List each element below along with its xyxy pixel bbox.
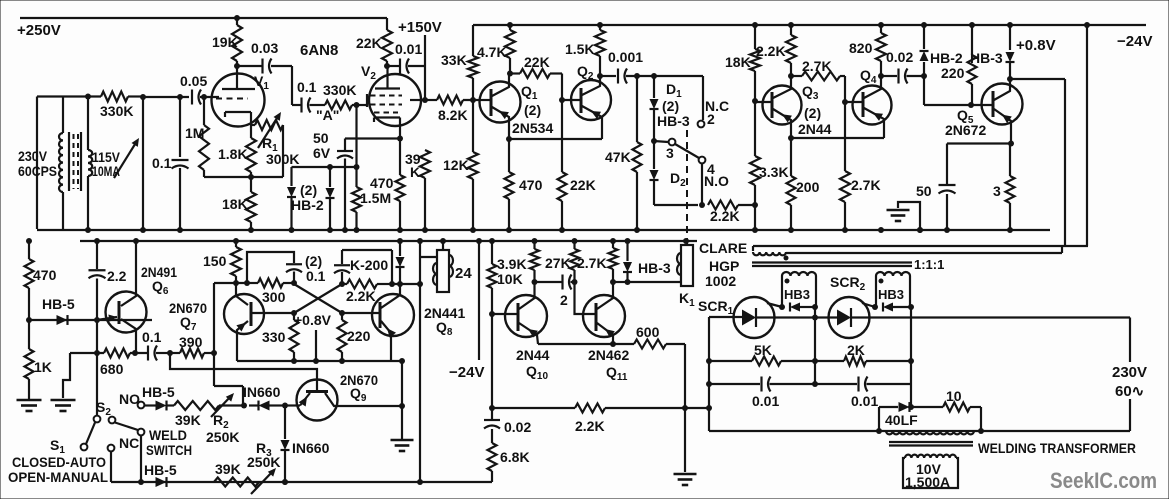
svg-text:1.5M: 1.5M (360, 190, 391, 206)
svg-text:10K: 10K (497, 271, 523, 287)
svg-text:2.7K: 2.7K (851, 177, 881, 193)
svg-text:−24V: −24V (1117, 33, 1152, 50)
svg-text:2.2K: 2.2K (710, 208, 740, 224)
svg-text:19K: 19K (212, 34, 238, 50)
svg-text:22K: 22K (524, 54, 550, 70)
svg-text:+0.8V: +0.8V (1016, 37, 1056, 54)
svg-text:8.2K: 8.2K (438, 107, 468, 123)
svg-text:6.8K: 6.8K (500, 449, 530, 465)
svg-text:470: 470 (33, 267, 57, 283)
svg-text:1002: 1002 (705, 273, 736, 289)
svg-text:K-200: K-200 (350, 257, 388, 273)
svg-text:47K: 47K (605, 149, 631, 165)
svg-text:50: 50 (313, 130, 329, 146)
svg-text:HB-5: HB-5 (144, 462, 177, 478)
svg-text:24: 24 (455, 265, 472, 282)
svg-text:HB-5: HB-5 (42, 296, 75, 312)
svg-text:250K: 250K (247, 454, 280, 470)
svg-text:330K: 330K (323, 82, 356, 98)
svg-text:0.02: 0.02 (504, 419, 531, 435)
svg-text:SWITCH: SWITCH (146, 442, 192, 458)
svg-text:IN660: IN660 (292, 440, 330, 456)
svg-text:1.5K: 1.5K (565, 41, 595, 57)
svg-text:2N534: 2N534 (512, 120, 553, 136)
svg-text:1.8K: 1.8K (218, 146, 248, 162)
svg-text:39K: 39K (215, 461, 241, 477)
svg-text:1M: 1M (185, 125, 204, 141)
svg-text:10: 10 (946, 388, 962, 404)
svg-text:0.001: 0.001 (608, 49, 643, 65)
svg-text:230V: 230V (1112, 364, 1147, 381)
svg-text:HB-3: HB-3 (657, 113, 690, 129)
svg-text:470: 470 (519, 177, 543, 193)
svg-text:(2): (2) (524, 102, 541, 118)
svg-text:2.7K: 2.7K (577, 255, 607, 271)
svg-text:2: 2 (560, 292, 568, 308)
svg-text:22K: 22K (356, 35, 382, 51)
svg-text:2N462: 2N462 (588, 347, 629, 363)
svg-text:60∿: 60∿ (1115, 383, 1144, 400)
svg-text:K: K (410, 164, 420, 180)
svg-text:10MA: 10MA (92, 163, 120, 179)
svg-text:5K: 5K (754, 342, 772, 358)
svg-text:HB-3: HB-3 (970, 50, 1003, 66)
svg-text:50: 50 (916, 183, 932, 199)
svg-text:18K: 18K (725, 54, 751, 70)
svg-text:680: 680 (100, 361, 124, 377)
svg-text:0.01: 0.01 (395, 41, 422, 57)
svg-text:300: 300 (262, 289, 286, 305)
svg-text:1,500A: 1,500A (905, 474, 950, 490)
svg-text:(2): (2) (662, 98, 679, 114)
svg-text:150: 150 (203, 253, 227, 269)
svg-text:SeekIC.com: SeekIC.com (1050, 468, 1157, 493)
svg-text:HB-3: HB-3 (638, 260, 671, 276)
svg-text:3.3K: 3.3K (759, 164, 789, 180)
svg-text:WELD: WELD (149, 427, 187, 443)
svg-text:60CPS: 60CPS (18, 163, 57, 179)
svg-text:27K: 27K (545, 255, 571, 271)
svg-text:390: 390 (179, 334, 203, 350)
svg-text:300K: 300K (266, 151, 299, 167)
svg-text:2.2K: 2.2K (346, 288, 376, 304)
svg-text:0.1: 0.1 (306, 268, 326, 284)
svg-text:CLOSED-AUTO: CLOSED-AUTO (12, 454, 106, 470)
svg-text:(2): (2) (305, 253, 322, 269)
svg-text:2.2: 2.2 (107, 268, 127, 284)
svg-text:18K: 18K (222, 196, 248, 212)
svg-text:2.2K: 2.2K (756, 43, 786, 59)
svg-text:2.2K: 2.2K (575, 418, 605, 434)
svg-text:HB-2: HB-2 (291, 197, 324, 213)
svg-text:HB-5: HB-5 (142, 384, 175, 400)
svg-text:N.O: N.O (704, 173, 729, 189)
svg-text:2N672: 2N672 (945, 122, 986, 138)
svg-text:250K: 250K (206, 429, 239, 445)
svg-text:2.7K: 2.7K (802, 58, 832, 74)
svg-text:40LF: 40LF (885, 412, 918, 428)
svg-text:IN660: IN660 (243, 384, 281, 400)
svg-text:220: 220 (941, 65, 965, 81)
svg-text:6V: 6V (313, 145, 331, 161)
svg-text:0.01: 0.01 (851, 393, 878, 409)
svg-text:230V: 230V (18, 148, 48, 164)
svg-text:820: 820 (849, 40, 873, 56)
svg-text:1:1:1: 1:1:1 (914, 257, 944, 272)
svg-text:HB3: HB3 (784, 287, 810, 302)
svg-text:HB3: HB3 (878, 287, 904, 302)
svg-text:WELDING TRANSFORMER: WELDING TRANSFORMER (978, 440, 1136, 456)
svg-text:+250V: +250V (17, 22, 61, 39)
svg-text:6AN8: 6AN8 (300, 42, 338, 59)
svg-text:0.01: 0.01 (752, 393, 779, 409)
svg-text:NO: NO (119, 391, 140, 407)
svg-text:220: 220 (347, 328, 371, 344)
svg-text:2K: 2K (847, 342, 865, 358)
svg-text:2: 2 (707, 111, 715, 127)
svg-text:33K: 33K (441, 52, 467, 68)
svg-text:HGP: HGP (709, 258, 739, 274)
svg-text:HB-2: HB-2 (930, 50, 963, 66)
svg-text:4.7K: 4.7K (477, 44, 507, 60)
svg-text:3: 3 (993, 183, 1001, 199)
svg-text:0.05: 0.05 (180, 73, 207, 89)
svg-text:OPEN-MANUAL: OPEN-MANUAL (8, 469, 108, 485)
svg-text:"A": "A" (316, 107, 339, 123)
svg-text:200: 200 (796, 179, 820, 195)
svg-text:−24V: −24V (449, 364, 484, 381)
svg-text:22K: 22K (570, 177, 596, 193)
svg-text:470: 470 (370, 175, 394, 191)
svg-text:0.1: 0.1 (152, 155, 172, 171)
svg-text:2N44: 2N44 (798, 121, 832, 137)
svg-text:CLARE: CLARE (699, 240, 747, 256)
svg-text:330: 330 (262, 329, 286, 345)
svg-text:330K: 330K (100, 103, 133, 119)
svg-text:39K: 39K (175, 412, 201, 428)
svg-text:0.02: 0.02 (886, 49, 913, 65)
svg-text:(2): (2) (804, 105, 821, 121)
svg-text:+150V: +150V (398, 19, 442, 36)
svg-text:600: 600 (636, 324, 660, 340)
svg-text:1K: 1K (34, 359, 52, 375)
svg-text:3: 3 (666, 145, 674, 161)
svg-text:0.1: 0.1 (297, 79, 317, 95)
svg-text:NC: NC (119, 435, 139, 451)
svg-text:0.1: 0.1 (142, 329, 162, 345)
svg-text:0.03: 0.03 (251, 40, 278, 56)
svg-text:12K: 12K (443, 157, 469, 173)
svg-text:2N44: 2N44 (516, 347, 550, 363)
svg-text:3.9K: 3.9K (497, 256, 527, 272)
svg-text:+0.8V: +0.8V (294, 312, 332, 328)
svg-text:(2): (2) (300, 182, 317, 198)
